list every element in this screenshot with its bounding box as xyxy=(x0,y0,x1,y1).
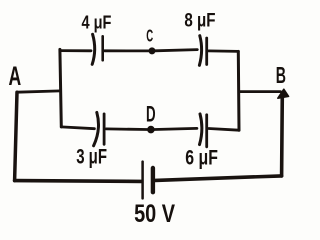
svg-text:4 μF: 4 μF xyxy=(82,11,112,32)
svg-text:A: A xyxy=(9,61,22,91)
svg-text:3 μF: 3 μF xyxy=(76,145,107,169)
svg-text:C: C xyxy=(146,26,153,46)
svg-text:6 μF: 6 μF xyxy=(185,145,218,169)
svg-text:50 V: 50 V xyxy=(134,200,175,228)
svg-text:8 μF: 8 μF xyxy=(184,11,215,32)
svg-text:D: D xyxy=(146,101,156,126)
svg-text:B: B xyxy=(276,62,286,88)
